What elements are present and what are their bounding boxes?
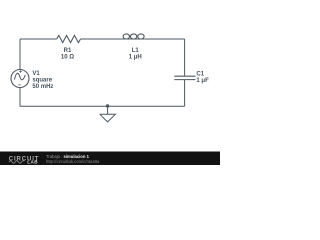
svg-text:1 μH: 1 μH [129,54,142,60]
svg-text:http://circuitlab.com/c/nta48a: http://circuitlab.com/c/nta48a [46,159,100,164]
svg-text:LAB: LAB [27,160,38,165]
svg-text:C1: C1 [196,72,204,78]
svg-text:V1: V1 [32,71,40,77]
svg-text:10 Ω: 10 Ω [61,55,74,61]
svg-text:square: square [32,78,52,84]
svg-text:1 μF: 1 μF [196,78,209,84]
svg-text:L1: L1 [132,48,140,54]
svg-text:50 mHz: 50 mHz [32,84,53,90]
svg-text:R1: R1 [64,48,72,54]
